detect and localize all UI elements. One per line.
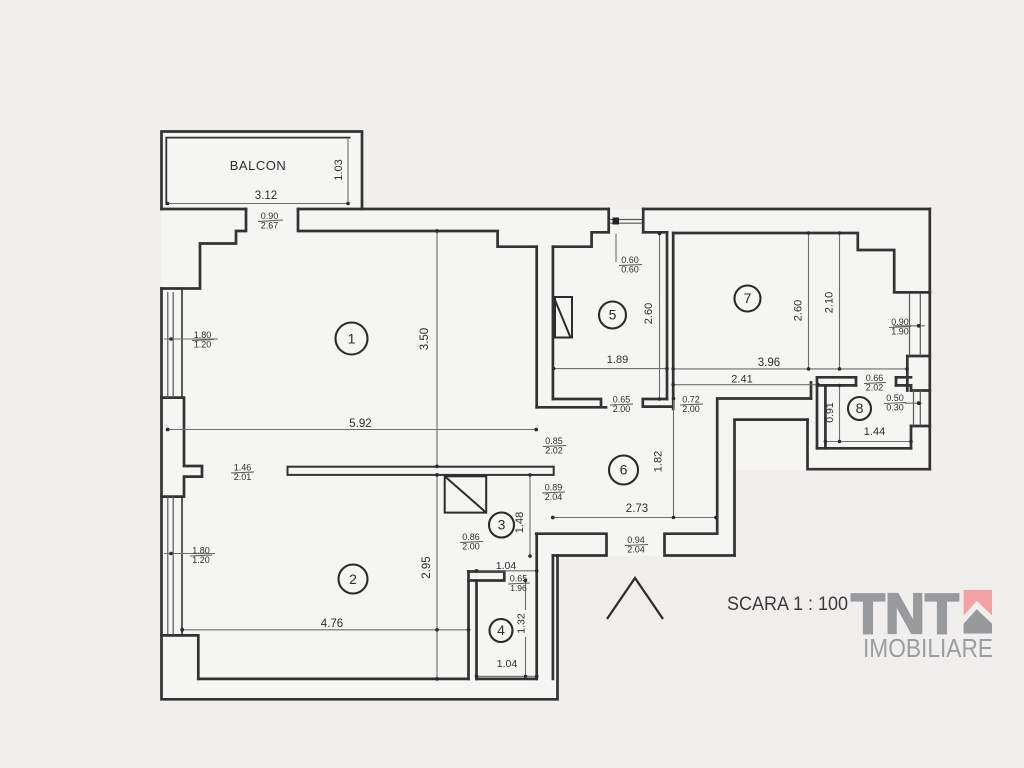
svg-text:2.02: 2.02: [866, 383, 884, 393]
svg-text:0.50: 0.50: [886, 393, 904, 403]
svg-text:0.90: 0.90: [261, 211, 279, 221]
svg-text:3: 3: [498, 517, 506, 533]
svg-text:1.89: 1.89: [607, 354, 628, 366]
svg-text:2.95: 2.95: [421, 556, 433, 578]
svg-text:1.80: 1.80: [194, 330, 212, 340]
svg-text:4.76: 4.76: [321, 618, 343, 630]
svg-text:0.65: 0.65: [613, 395, 631, 405]
svg-text:2: 2: [349, 571, 357, 587]
svg-text:8: 8: [856, 400, 864, 416]
svg-text:2.60: 2.60: [643, 303, 655, 324]
svg-text:1.80: 1.80: [192, 546, 210, 556]
svg-text:6: 6: [620, 462, 628, 478]
svg-text:1.48: 1.48: [514, 512, 526, 533]
svg-text:0.72: 0.72: [682, 395, 700, 405]
svg-text:IMOBILIARE: IMOBILIARE: [863, 633, 993, 663]
svg-text:3.50: 3.50: [419, 328, 431, 350]
svg-text:1.04: 1.04: [496, 560, 517, 572]
svg-text:1.20: 1.20: [192, 555, 210, 565]
svg-text:5: 5: [609, 307, 617, 323]
svg-text:1.20: 1.20: [194, 340, 212, 350]
svg-text:2.60: 2.60: [793, 300, 805, 321]
svg-text:5.92: 5.92: [349, 418, 371, 430]
svg-text:2.00: 2.00: [682, 404, 700, 414]
svg-text:BALCON: BALCON: [230, 158, 286, 173]
svg-text:0.91: 0.91: [824, 402, 836, 423]
svg-text:2.67: 2.67: [261, 221, 279, 231]
svg-text:2.02: 2.02: [545, 446, 563, 456]
svg-text:0.66: 0.66: [866, 373, 884, 383]
svg-text:1.32: 1.32: [516, 613, 528, 634]
svg-text:0.30: 0.30: [886, 403, 904, 413]
svg-text:0.94: 0.94: [627, 535, 645, 545]
svg-text:2.00: 2.00: [613, 404, 631, 414]
svg-text:2.73: 2.73: [626, 503, 648, 515]
svg-text:0.60: 0.60: [621, 265, 639, 275]
svg-text:0.65: 0.65: [510, 574, 528, 584]
svg-text:1.96: 1.96: [510, 583, 527, 593]
svg-text:0.90: 0.90: [891, 317, 909, 327]
svg-text:SCARA 1 : 100: SCARA 1 : 100: [727, 594, 848, 615]
svg-text:1.46: 1.46: [234, 463, 252, 473]
svg-text:2.41: 2.41: [731, 374, 752, 386]
svg-text:3.96: 3.96: [758, 357, 780, 369]
svg-text:0.89: 0.89: [545, 483, 563, 493]
svg-text:7: 7: [744, 290, 752, 306]
svg-text:1.90: 1.90: [891, 327, 909, 337]
svg-text:2.04: 2.04: [627, 545, 645, 555]
svg-text:1.03: 1.03: [333, 159, 345, 180]
svg-text:2.01: 2.01: [234, 472, 252, 482]
svg-text:1.04: 1.04: [497, 658, 518, 670]
svg-text:2.00: 2.00: [462, 542, 480, 552]
svg-text:1.44: 1.44: [864, 426, 885, 438]
svg-text:0.60: 0.60: [621, 255, 639, 265]
svg-text:1.82: 1.82: [653, 451, 665, 472]
svg-text:0.86: 0.86: [462, 532, 480, 542]
svg-text:2.10: 2.10: [824, 292, 836, 313]
svg-text:3.12: 3.12: [255, 190, 277, 202]
svg-text:4: 4: [497, 622, 505, 638]
svg-text:1: 1: [348, 331, 356, 347]
svg-text:2.04: 2.04: [545, 492, 563, 502]
svg-text:0.85: 0.85: [545, 436, 563, 446]
